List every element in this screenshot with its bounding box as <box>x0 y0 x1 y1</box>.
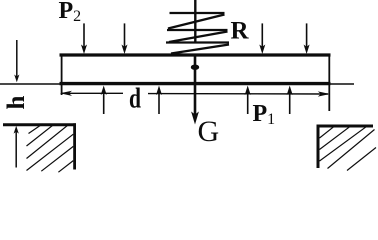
load P2 arrow 1 <box>81 23 87 54</box>
spring R coil 3 back <box>166 41 229 43</box>
spring R bottom connector <box>171 54 196 56</box>
dimension h bottom arrow <box>14 126 19 168</box>
spring R coil 1 back <box>170 12 225 14</box>
right support block top edge <box>317 125 374 128</box>
right support hatch <box>320 127 377 171</box>
plate left edge with extension <box>61 54 63 96</box>
left support block right edge <box>73 123 76 169</box>
force G arrowhead <box>191 112 199 125</box>
left support block top edge <box>3 123 76 126</box>
spring R stem <box>194 0 196 43</box>
spring R coil 2 back <box>167 29 228 31</box>
dimension h top arrow <box>14 40 19 82</box>
plate right edge with extension <box>328 54 330 112</box>
reaction P1 arrow 4 <box>287 86 293 115</box>
spring R coil 2 front <box>169 32 228 43</box>
svg-text:P2: P2 <box>59 0 82 25</box>
svg-text:d: d <box>129 83 141 114</box>
load P2 arrow 2 <box>122 23 128 54</box>
plate top edge <box>60 53 331 56</box>
spring R coil 1 front <box>168 15 225 29</box>
dimension d line left segment <box>62 92 123 94</box>
svg-text:h: h <box>3 96 30 110</box>
spring R coil 3 front <box>171 45 229 54</box>
svg-text:G: G <box>198 115 220 148</box>
plate bottom edge <box>60 82 331 85</box>
force G line <box>194 56 197 118</box>
reaction P1 arrow 3 <box>245 86 251 115</box>
reaction P1 arrow 1 <box>101 86 107 115</box>
svg-text:P1: P1 <box>253 101 276 128</box>
load P2 arrow 3 <box>259 23 265 54</box>
reaction P1 arrow 2 <box>156 86 162 115</box>
baseline (plate bottom extension line) <box>0 83 354 85</box>
dimension d line right segment <box>148 93 328 95</box>
left support hatch <box>27 124 74 172</box>
svg-text:R: R <box>231 18 250 45</box>
dimension d left arrowhead <box>60 91 72 96</box>
load P2 arrow 4 <box>304 23 310 54</box>
dimension d right arrowhead <box>318 91 330 96</box>
right support block left edge <box>317 125 320 169</box>
center node dot <box>191 65 199 70</box>
